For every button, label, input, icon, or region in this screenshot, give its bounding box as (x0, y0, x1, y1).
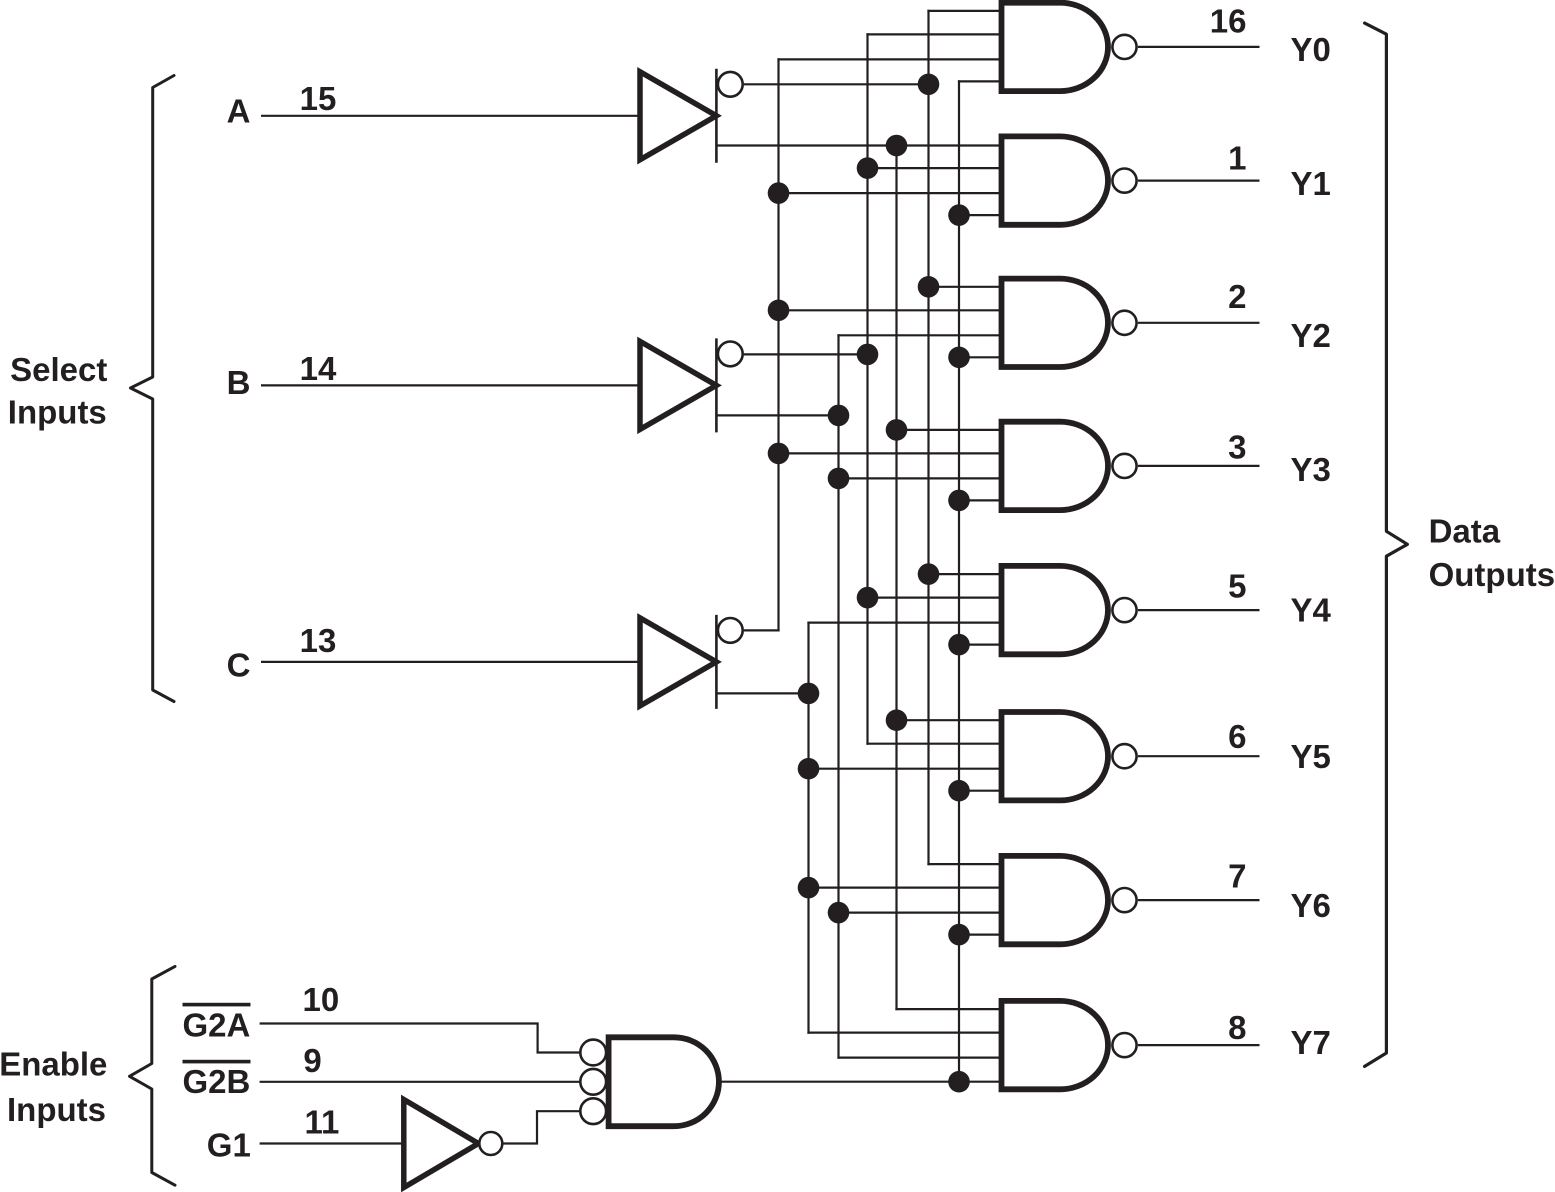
wire: Cbar to gate Y0 input 3 (777, 58, 1001, 60)
wire: G2B to enable AND input 2 (260, 1081, 581, 1083)
wire: Abar feed to Abar bus (744, 83, 929, 85)
bubble: Y6 output (1112, 888, 1136, 912)
wire: B to gate Y7 input 3 (837, 1056, 1001, 1058)
bubble: Y1 output (1112, 169, 1136, 193)
inverter: G1 (404, 1100, 479, 1188)
NAND gate Y7 (1002, 1001, 1109, 1089)
svg-text:Y1: Y1 (1291, 165, 1331, 202)
svg-text:9: 9 (303, 1042, 321, 1079)
svg-text:Inputs: Inputs (8, 393, 107, 430)
wire: EN to gate Y2 input 4 (958, 356, 1002, 358)
wire: Y5 output (1138, 755, 1260, 757)
svg-text:Y5: Y5 (1291, 738, 1331, 775)
wire: A to gate Y7 input 1 (895, 1008, 1001, 1010)
overline for G2A (183, 1003, 251, 1007)
wire: EN to gate Y5 input 4 (958, 790, 1002, 792)
bubble: Y5 output (1112, 744, 1136, 768)
bubble: G1 inverter output (479, 1132, 502, 1155)
wire: input C to buffer (261, 661, 640, 663)
junction: B tap for Y6 input 3 (828, 902, 850, 924)
junction: EN tap for Y6 input 4 (948, 924, 970, 946)
bubble: C inverted output (718, 618, 743, 643)
junction: A tap for Y3 input 1 (886, 419, 908, 441)
junction: Cbar tap for Y2 input 2 (768, 300, 790, 322)
svg-text:Y4: Y4 (1291, 592, 1332, 629)
wire: Abar to gate Y0 input 1 (927, 10, 1001, 12)
svg-text:13: 13 (300, 622, 337, 659)
svg-text:C: C (227, 647, 251, 684)
wire: B to gate Y6 input 3 (837, 911, 1001, 913)
junction: B tap for Y3 input 3 (828, 468, 850, 490)
junction: Bbar tap for Y1 input 2 (857, 157, 879, 179)
junction: EN tap for Y1 input 4 (948, 204, 970, 226)
wire: Y4 output (1138, 609, 1260, 611)
NAND gate Y0 (1002, 3, 1109, 91)
wire: Cbar to gate Y2 input 2 (777, 309, 1001, 311)
wire: Cbar to gate Y1 input 3 (777, 192, 1001, 194)
junction: Cbar tap for Y1 input 3 (768, 182, 790, 204)
buffer A (complementary outputs) (640, 69, 716, 163)
svg-text:10: 10 (303, 981, 340, 1018)
junction: Abar tap for Y2 input 1 (918, 276, 940, 298)
wire: B to gate Y2 input 3 (837, 334, 1001, 336)
wire: EN to gate Y6 input 4 (958, 933, 1002, 935)
wire: Y1 output (1138, 180, 1260, 182)
wire: Bbar to gate Y5 input 2 (866, 743, 1001, 745)
wire: A vertical bus (895, 144, 897, 1010)
svg-text:G2A: G2A (183, 1007, 251, 1044)
svg-text:Data: Data (1429, 512, 1501, 549)
junction: Cbar tap for Y3 input 2 (768, 443, 790, 465)
wire: EN vertical bus (958, 80, 960, 1083)
NAND gate Y1 (1002, 136, 1109, 224)
junction: EN tap for Y4 input 4 (948, 634, 970, 656)
svg-text:A: A (227, 93, 251, 130)
wire: Bbar to gate Y1 input 2 (866, 167, 1001, 169)
junction: EN tap for Y2 input 4 (948, 347, 970, 369)
junction: C feed (798, 683, 820, 705)
svg-text:G1: G1 (207, 1127, 251, 1164)
svg-text:Select: Select (10, 351, 107, 388)
junction: C tap for Y6 input 2 (798, 877, 820, 899)
wire: Cbar vertical bus (777, 58, 779, 631)
svg-text:Enable: Enable (0, 1046, 107, 1083)
overline for G2B (183, 1060, 251, 1064)
junction: A tap for Y5 input 1 (886, 709, 908, 731)
wire: G1 to inverter (260, 1142, 404, 1144)
svg-text:B: B (227, 364, 251, 401)
junction: B feed (828, 405, 850, 427)
bubble: A inverted output (718, 72, 743, 97)
wire: C to gate Y5 input 3 (807, 768, 1001, 770)
svg-text:11: 11 (304, 1103, 339, 1140)
label: Enable Inputs (0, 1046, 107, 1129)
wire: Abar to gate Y2 input 1 (927, 286, 1001, 288)
junction: Bbar feed (857, 344, 879, 366)
junction: C tap for Y5 input 3 (798, 758, 820, 780)
NAND gate Y5 (1002, 712, 1109, 800)
svg-text:Y2: Y2 (1291, 317, 1331, 354)
buffer C (complementary outputs) (640, 615, 716, 709)
wire: Bbar to gate Y0 input 2 (866, 33, 1001, 35)
wire: Y3 output (1138, 465, 1260, 467)
NAND gate Y4 (1002, 566, 1108, 654)
wire: input A to buffer (261, 115, 640, 117)
brace: enable inputs group (130, 966, 176, 1185)
bubble: enable AND input 2 (580, 1069, 606, 1095)
wire: Y0 output (1138, 46, 1260, 48)
svg-text:Outputs: Outputs (1429, 556, 1555, 593)
wire: C to gate Y7 input 2 (807, 1031, 1001, 1033)
wire: Y2 output (1138, 322, 1260, 324)
wire: input B to buffer (261, 384, 640, 386)
wire: enable AND output to gate Y7 input 4 (720, 1081, 1002, 1083)
junction: EN tap for Y5 input 4 (948, 780, 970, 802)
NAND gate Y6 (1002, 856, 1109, 944)
wire: C true feed to C bus (716, 692, 808, 694)
svg-text:3: 3 (1228, 428, 1246, 465)
wire: G1 inverted to enable AND input 3 (503, 1111, 581, 1143)
buffer B (complementary outputs) (640, 338, 716, 432)
junction: A bus top (886, 135, 908, 157)
bubble: Y2 output (1112, 311, 1136, 335)
svg-text:Inputs: Inputs (7, 1091, 106, 1128)
svg-text:Y7: Y7 (1291, 1024, 1331, 1061)
svg-text:5: 5 (1228, 568, 1246, 605)
wire: Abar vertical bus (927, 10, 929, 865)
wire: EN to gate Y1 input 4 (958, 214, 1002, 216)
brace: select inputs group (131, 76, 175, 702)
svg-text:G2B: G2B (183, 1063, 251, 1100)
wire: EN to gate Y3 input 4 (958, 499, 1002, 501)
svg-text:Y6: Y6 (1291, 887, 1331, 924)
label: Select Inputs (8, 351, 108, 431)
bubble: enable AND input 1 (580, 1040, 606, 1066)
wire: Bbar to gate Y4 input 2 (866, 596, 1001, 598)
wire: C vertical bus (807, 622, 809, 1034)
wire: C to gate Y6 input 2 (807, 886, 1001, 888)
wire: Cbar feed corner into Cbar bus (744, 629, 780, 631)
junction: Abar feed (918, 74, 940, 96)
junction: EN bus tap at AND output (948, 1071, 970, 1093)
bubble: Y3 output (1112, 454, 1136, 478)
wire: Bbar feed to Bbar bus (744, 353, 868, 355)
wire: Abar to gate Y6 input 1 (927, 863, 1001, 865)
bubble: Y4 output (1112, 598, 1136, 622)
junction: Abar tap for Y4 input 1 (918, 563, 940, 585)
NAND gate Y3 (1002, 422, 1109, 510)
bubble: B inverted output (718, 342, 743, 367)
wire: A to gate Y3 input 1 (895, 429, 1001, 431)
bubble: enable AND input 3 (580, 1098, 606, 1124)
bubble: Y7 output (1112, 1033, 1136, 1057)
svg-text:15: 15 (300, 80, 337, 117)
NAND gate Y2 (1002, 279, 1108, 367)
junction: EN tap for Y3 input 4 (948, 490, 970, 512)
junction: Bbar tap for Y4 input 2 (857, 587, 879, 609)
wire: Abar to gate Y4 input 1 (927, 573, 1001, 575)
wire: B true feed to B bus (716, 414, 838, 416)
wire: Bbar vertical bus (866, 33, 868, 745)
wire: C to gate Y4 input 3 (807, 621, 1001, 623)
wire: B to gate Y3 input 3 (837, 477, 1001, 479)
svg-text:Y0: Y0 (1291, 31, 1331, 68)
svg-text:8: 8 (1228, 1009, 1246, 1046)
wire: EN to gate Y4 input 4 (958, 643, 1002, 645)
bracket: data outputs group (1365, 23, 1408, 1066)
bubble: Y0 output (1112, 35, 1136, 59)
svg-text:7: 7 (1228, 857, 1246, 894)
label: Data Outputs (1429, 512, 1555, 592)
svg-text:14: 14 (300, 350, 337, 387)
svg-text:2: 2 (1228, 278, 1246, 315)
wire: Y6 output (1138, 899, 1260, 901)
svg-text:16: 16 (1210, 2, 1247, 39)
wire: EN to gate Y0 input 4 (958, 80, 1002, 82)
wire: Cbar to gate Y3 input 2 (777, 452, 1001, 454)
svg-text:1: 1 (1228, 140, 1246, 177)
wire: A true feed through to gate Y1 input 1 (716, 144, 1001, 146)
svg-text:Y3: Y3 (1291, 451, 1331, 488)
wire: Y7 output (1138, 1044, 1260, 1046)
svg-text:6: 6 (1228, 718, 1246, 755)
wire: B vertical bus (837, 334, 839, 1058)
wire: G2A to enable AND input 1 (260, 1024, 581, 1053)
AND gate: enable (3-input) (609, 1037, 719, 1126)
wire: A to gate Y5 input 1 (895, 719, 1001, 721)
